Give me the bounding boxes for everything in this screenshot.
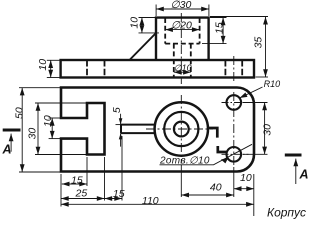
dimension 10 (rib): [139, 18, 160, 33]
dimension Ø10 (center hole): [174, 71, 191, 73]
centerline top hole horizontal: [222, 102, 249, 104]
bottom right hole Ø10: [227, 147, 242, 162]
base plate outline (front view): [61, 60, 254, 78]
hidden line counterbore Ø20 left wall: [164, 18, 166, 44]
svg-text:40: 40: [210, 182, 222, 194]
svg-text:2отв.∅10: 2отв.∅10: [159, 156, 210, 167]
section mark A right arrow: [295, 159, 297, 184]
centerline holes vertical (plan): [233, 92, 235, 166]
dimension 15 (slot depth): [62, 157, 87, 186]
section step bracket upper: [209, 128, 217, 138]
plan outline with T-slot and rounded right corners: [61, 88, 254, 172]
dimension 10 (hole to edge): [234, 188, 254, 190]
centerline boss vertical (plan): [180, 95, 182, 164]
svg-text:15: 15: [113, 188, 125, 200]
svg-text:A: A: [2, 143, 12, 157]
dimension 5 (rib width, plan): [116, 114, 125, 147]
svg-text:∅10: ∅10: [174, 63, 192, 73]
svg-text:10: 10: [129, 17, 141, 29]
centerline right hole axis (front view): [233, 56, 235, 82]
hole circle Ø10 (plan): [174, 122, 189, 137]
svg-text:Корпус: Корпус: [267, 206, 306, 220]
rib top edge (plan): [121, 124, 155, 126]
svg-text:∅20: ∅20: [171, 20, 192, 32]
centerline boss axis (front view): [180, 13, 182, 84]
dimension 35 (overall height): [210, 17, 268, 78]
dimension 10 (slot channel height): [49, 118, 60, 139]
svg-text:110: 110: [142, 195, 159, 207]
section step bracket lower: [218, 146, 228, 152]
counterbore circle Ø20 (plan): [164, 112, 198, 146]
svg-text:10: 10: [42, 115, 54, 127]
dimension 10 (plate thickness): [47, 60, 60, 77]
boss outline (front view): [156, 18, 209, 60]
svg-text:A: A: [299, 168, 309, 182]
svg-text:10: 10: [37, 59, 49, 71]
svg-text:5: 5: [111, 107, 123, 113]
rib diagonal (front view): [130, 33, 156, 60]
dimension 25: [61, 157, 105, 201]
hidden line slot wall A (front view): [86, 60, 88, 78]
hidden line hole Ø10 left wall: [173, 44, 175, 78]
hidden line counterbore bottom: [165, 43, 199, 45]
svg-text:∅30: ∅30: [171, 0, 192, 11]
svg-text:50: 50: [14, 107, 26, 119]
svg-text:30: 30: [26, 128, 38, 140]
dimension Ø20 (counterbore): [165, 29, 199, 31]
hidden line counterbore Ø20 right wall: [199, 18, 201, 44]
svg-text:25: 25: [75, 188, 88, 200]
dimension 30 (between holes): [243, 103, 268, 155]
centerline bottom hole horizontal: [222, 153, 249, 155]
boss outer circle Ø30 (plan): [155, 102, 208, 155]
centerline boss horizontal (plan): [146, 128, 213, 130]
svg-text:35: 35: [253, 37, 265, 49]
dimension 15 (counterbore depth): [202, 18, 227, 44]
dimension 50 (plan overall height): [19, 88, 60, 172]
section mark A left arrow: [10, 134, 12, 152]
svg-text:15: 15: [213, 22, 225, 34]
dimension Ø30 (boss): [156, 5, 209, 17]
hidden line hole Ø10 right wall: [190, 44, 192, 78]
dimension 40: [181, 165, 234, 197]
leader R10: [240, 87, 263, 98]
rib end cap (plan): [120, 125, 122, 134]
dimension 30 (slot cavity height): [35, 103, 103, 155]
svg-text:10: 10: [240, 172, 252, 184]
section mark A left stroke: [3, 129, 21, 132]
hidden line slot wall B (front view): [104, 60, 106, 78]
dimension 15 (cavity to rib): [105, 136, 123, 201]
svg-text:30: 30: [261, 124, 273, 136]
svg-text:15: 15: [71, 175, 83, 187]
top right hole Ø10: [227, 95, 242, 110]
section mark A right stroke: [285, 154, 302, 157]
rib bottom edge (plan): [121, 132, 155, 134]
hidden line right hole left wall (front view): [224, 60, 226, 78]
dimension 110 (overall length): [61, 174, 254, 216]
hidden line right hole right wall (front view): [241, 60, 243, 78]
leader 2 holes Ø10: [160, 144, 253, 165]
svg-text:R10: R10: [264, 79, 281, 89]
